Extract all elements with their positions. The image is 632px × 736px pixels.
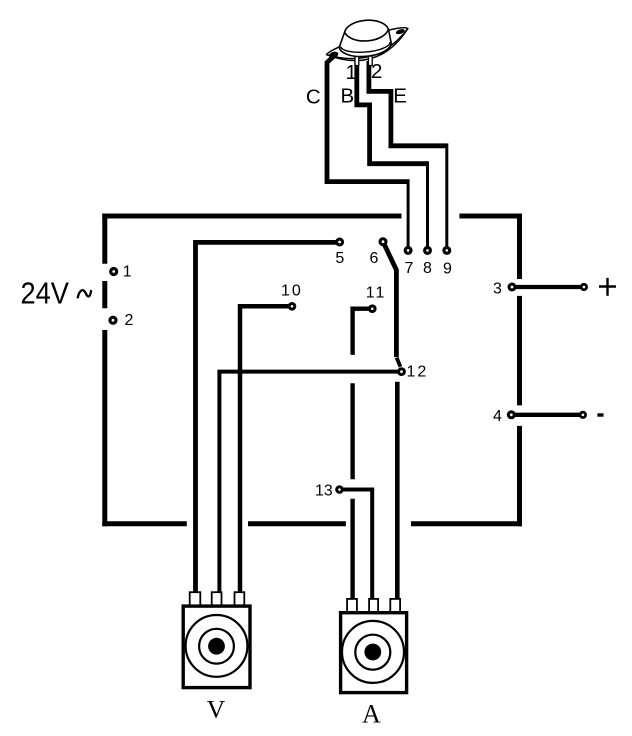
svg-text:24V: 24V [21, 276, 70, 311]
svg-text:3: 3 [493, 281, 502, 298]
svg-text:1: 1 [346, 61, 357, 84]
svg-text:1: 1 [123, 264, 132, 281]
svg-text:9: 9 [443, 261, 452, 278]
svg-text:B: B [341, 84, 355, 107]
svg-text:V: V [207, 695, 226, 724]
svg-text:A: A [362, 700, 381, 729]
svg-text:2: 2 [371, 60, 382, 83]
svg-text:4: 4 [493, 408, 502, 425]
svg-text:C: C [306, 85, 321, 108]
svg-text:12: 12 [407, 364, 429, 381]
svg-text:6: 6 [370, 250, 379, 267]
svg-text:11: 11 [366, 285, 387, 302]
svg-text:E: E [393, 85, 407, 108]
svg-text:10: 10 [281, 283, 303, 300]
svg-text:13: 13 [315, 483, 333, 500]
svg-text:8: 8 [423, 260, 432, 277]
svg-text:7: 7 [405, 260, 414, 277]
svg-text:5: 5 [335, 250, 344, 267]
svg-text:2: 2 [125, 312, 134, 329]
